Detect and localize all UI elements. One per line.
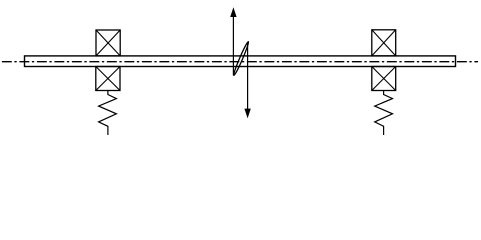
bearing B2 lower block: [372, 67, 396, 91]
bearing B2 upper block: [372, 30, 396, 56]
bearing B1 lower block: [96, 67, 120, 91]
spring K1 (left support): [99, 91, 117, 136]
spring K2 (right support): [375, 91, 393, 136]
bearing B1 upper block: [96, 30, 120, 56]
shaft: [25, 56, 456, 67]
disk D (thin ellipse on shaft): [232, 41, 249, 76]
arrow down (vibration direction, lower): [244, 43, 250, 119]
arrow up (vibration direction, upper): [230, 7, 236, 75]
centerline (shaft axis, dash-dot): [2, 61, 478, 63]
